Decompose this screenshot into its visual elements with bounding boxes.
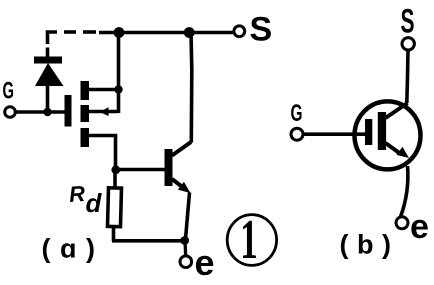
wire: emitter node to e terminal bbox=[183, 241, 187, 256]
wire: MOSFET drain stub bbox=[89, 88, 119, 92]
figure number 1 in circle bbox=[227, 209, 276, 271]
BJT Q1 emitter lead with arrow bbox=[172, 179, 191, 239]
terminal G (fig b) bbox=[291, 128, 303, 140]
MOSFET M1 channel segment (source) bbox=[81, 128, 90, 147]
svg-text:S: S bbox=[401, 3, 415, 41]
IGBT symbol circle (fig b) bbox=[355, 101, 421, 169]
label Rd bbox=[68, 181, 102, 218]
label S (fig b) bbox=[401, 3, 415, 41]
BJT Q1 base bar bbox=[165, 149, 173, 186]
MOSFET M1 channel segment (body) bbox=[81, 105, 90, 122]
label S (fig a) bbox=[250, 11, 273, 49]
IGBT gate bar (fig b) bbox=[365, 119, 372, 145]
junction: emitter node on bottom rail bbox=[180, 236, 189, 245]
svg-text:S: S bbox=[250, 11, 273, 49]
label G (fig b) bbox=[291, 100, 303, 127]
svg-text:G: G bbox=[3, 78, 15, 105]
junction: top rail / BJT collector riser bbox=[184, 27, 195, 38]
IGBT collector lead (fig b) bbox=[386, 103, 408, 118]
wire: MOSFET body stub with arrow bbox=[89, 107, 118, 116]
terminal S (fig a) bbox=[234, 26, 245, 37]
label G (fig a) bbox=[3, 78, 15, 105]
wire: base node down to resistor bbox=[113, 170, 117, 187]
BJT Q1 collector lead bbox=[172, 33, 192, 156]
label (a) bbox=[42, 234, 105, 264]
wire: resistor bottom to bottom rail bbox=[112, 227, 116, 241]
junction: top rail / MOSFET drain riser bbox=[114, 27, 125, 38]
IGBT channel bar (fig b) bbox=[378, 112, 386, 150]
terminal e (fig a) bbox=[180, 256, 192, 268]
label e (fig a) bbox=[195, 242, 215, 283]
wire: G terminal to MOSFET gate bbox=[15, 110, 64, 114]
svg-text:e: e bbox=[195, 242, 215, 283]
resistor Rd body bbox=[107, 188, 121, 227]
junction: G wire / diode anode bbox=[43, 108, 51, 116]
svg-text:(ɑ): (ɑ) bbox=[42, 234, 105, 264]
svg-text:d: d bbox=[86, 188, 103, 218]
svg-text:G: G bbox=[291, 100, 303, 127]
terminal S (fig b) bbox=[402, 38, 414, 50]
label (b) bbox=[340, 230, 400, 260]
wire: base node to BJT base bbox=[116, 168, 165, 172]
MOSFET M1 channel segment (drain) bbox=[81, 81, 90, 100]
wire: drain riser from top rail bbox=[117, 33, 121, 113]
MOSFET M1 gate bar bbox=[65, 95, 72, 127]
wire: S terminal lead into IGBT symbol bbox=[407, 50, 408, 103]
wire: emitter lead to e terminal (fig b) bbox=[401, 166, 408, 217]
label e (fig b) bbox=[410, 208, 429, 246]
junction: source / Rd / BJT base node bbox=[111, 165, 120, 174]
wire: dashed link from diode cathode to top rail bbox=[48, 32, 97, 44]
wire: top rail (drain/collector bus to S) bbox=[99, 31, 234, 35]
svg-text:e: e bbox=[410, 208, 429, 246]
wire: G terminal to IGBT gate bbox=[303, 132, 365, 136]
terminal e (fig b) bbox=[396, 217, 408, 229]
svg-text:R: R bbox=[68, 181, 86, 207]
svg-text:(b): (b) bbox=[340, 230, 400, 260]
wire: MOSFET source stub down to base node bbox=[89, 136, 116, 167]
junction: drain stub / riser bbox=[114, 85, 122, 93]
IGBT emitter lead with arrow (fig b) bbox=[386, 143, 410, 158]
wire: bottom rail to emitter node bbox=[112, 239, 185, 243]
diode D (gate clamp) bbox=[34, 48, 64, 113]
terminal G (fig a) bbox=[5, 107, 16, 118]
svg-text:1: 1 bbox=[240, 209, 258, 271]
